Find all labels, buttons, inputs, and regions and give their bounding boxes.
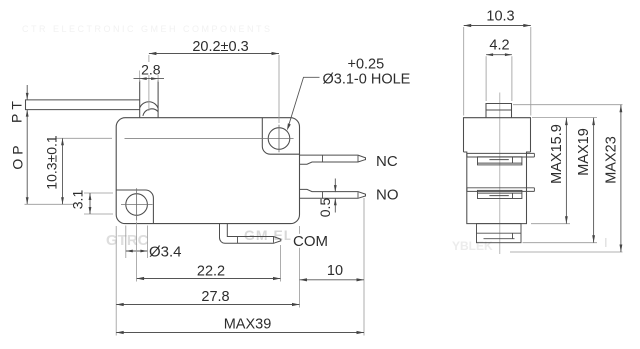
dim MAX19 arrows: [592, 118, 595, 126]
hole H1 horizontal centerline: [125, 138, 294, 140]
dim 10 arrows: [300, 278, 308, 281]
side plunger: [486, 104, 512, 118]
terminal NC tip facet: [357, 156, 359, 162]
svg-text:22.2: 22.2: [197, 264, 225, 280]
dim 22.2 arrows: [137, 277, 145, 280]
ext line body left bottom: [115, 226, 117, 336]
dim MAX23 line: [620, 105, 622, 252]
dim 20.2 left arrow: [149, 52, 157, 55]
lever curl inner arc: [143, 109, 158, 116]
dim 2.8 arrows: [140, 77, 147, 80]
dim Ø3.4 ext left: [125, 226, 127, 259]
terminal NO crimp tick: [322, 192, 324, 199]
ext line body right bottom: [299, 226, 301, 308]
dim 10.3 ext right: [530, 27, 532, 116]
svg-text:Ø3.4: Ø3.4: [149, 244, 182, 261]
dim 10.3±0.1 line: [62, 138, 64, 204]
ext line terminal tips: [363, 198, 365, 336]
ext line hole H1 center: [278, 55, 280, 123]
terminal COM bracket and blade: [220, 224, 281, 244]
dim MAX23 arrows: [620, 105, 623, 113]
side blade row NC: [467, 153, 535, 165]
dim 20.2 right arrow: [272, 52, 280, 55]
svg-text:10.3±0.1: 10.3±0.1: [44, 135, 60, 190]
terminal NC blade: [300, 155, 366, 164]
dim 4.2 line: [486, 54, 512, 56]
svg-text:2.8: 2.8: [141, 61, 161, 77]
dim 4.2 ext right: [511, 56, 513, 101]
svg-text:CTR ELECTRONIC GMEH COMPONENTS: CTR ELECTRONIC GMEH COMPONENTS: [22, 24, 273, 34]
dim MAX39 line: [116, 332, 364, 334]
hole leader line: [288, 77, 319, 126]
dim 2.8 ext right: [157, 71, 159, 83]
body outline: [116, 118, 299, 224]
svg-text:20.2±0.3: 20.2±0.3: [192, 39, 248, 55]
hole H1 vertical centerline: [278, 125, 280, 153]
dim 0.5 arrow upper: [334, 185, 337, 192]
dim 3.1 ref bottom: [84, 213, 113, 215]
ext line hole H2 center to 22.2: [136, 222, 138, 282]
dim MAX15.9 line: [565, 118, 567, 224]
ref line hole centers height: [25, 203, 74, 205]
svg-text:MAX39: MAX39: [224, 317, 272, 333]
side blade row NO: [467, 188, 535, 199]
dim 3.1 line: [89, 193, 91, 214]
ref max23 bottom: [510, 251, 623, 253]
dim 10.3±0.1 ref top: [57, 137, 113, 139]
hole leader arrowhead: [287, 123, 291, 130]
svg-text:4.2: 4.2: [489, 38, 509, 54]
svg-text:MAX23: MAX23: [604, 136, 620, 184]
svg-text:GTRC: GTRC: [106, 232, 149, 249]
ext line COM tip: [280, 245, 282, 282]
dim PT/OP shared line: [26, 110, 28, 205]
dim Ø3.4 line: [126, 250, 148, 252]
dim MAX39 arrows: [116, 331, 124, 334]
hole H1 (top-right) circle: [268, 128, 290, 150]
dim 0.5 line lower: [334, 198, 336, 212]
dim PT line upper: [26, 85, 28, 100]
svg-text:I: I: [604, 235, 608, 250]
svg-text:MAX15.9: MAX15.9: [549, 124, 565, 184]
svg-text:10.3: 10.3: [486, 9, 514, 25]
dim 4.2 ext left: [485, 56, 487, 101]
svg-text:+0.25: +0.25: [348, 57, 385, 73]
terminal NC crimp tick: [322, 155, 324, 162]
lever arm: [26, 100, 140, 110]
dim 10 line: [300, 279, 365, 281]
svg-text:NC: NC: [376, 153, 398, 170]
ref body bottom right: [531, 223, 570, 225]
svg-text:COM: COM: [293, 233, 328, 250]
svg-text:0.5: 0.5: [317, 198, 333, 218]
dim 2.8 ext left: [139, 71, 141, 83]
svg-text:OP: OP: [10, 141, 26, 169]
dim 10.3 line: [464, 25, 531, 27]
terminal NO blade: [300, 189, 366, 198]
svg-text:27.8: 27.8: [201, 289, 229, 305]
side bottom COM block: [477, 224, 522, 243]
hole H2 vertical centerline: [136, 188, 138, 220]
dim 22.2 line: [137, 278, 281, 280]
dim 4.2 arrows: [486, 53, 493, 56]
bottom-left mounting boss: [116, 190, 153, 223]
dim Ø3.4 arrows: [126, 250, 133, 253]
svg-text:NO: NO: [376, 186, 399, 203]
svg-text:PT: PT: [9, 97, 25, 123]
dim 20.2±0.3 line: [149, 53, 279, 55]
dim 10.3 arrows: [464, 24, 472, 27]
dim 0.5 line upper: [334, 179, 336, 193]
side centerline: [499, 93, 501, 255]
dim 10.3 ext left: [463, 27, 465, 116]
hole H2 horizontal centerline: [121, 204, 153, 206]
terminal NO tip facet: [357, 192, 359, 198]
dim PT arrow upper: [26, 93, 29, 100]
dim PT arrow lower: [26, 110, 29, 117]
dim MAX15.9 arrows: [565, 118, 568, 126]
terminal COM crimp tick: [237, 237, 239, 244]
dim 27.8 arrows: [116, 303, 124, 306]
svg-text:MAX19: MAX19: [576, 128, 592, 176]
dim Ø3.4 ext right: [146, 226, 148, 259]
lever curl outer arc: [140, 102, 158, 108]
ext line button center: [148, 55, 150, 111]
dim 3.1 arrows: [89, 193, 92, 200]
svg-text:GM EL: GM EL: [244, 227, 293, 243]
side body outline: [464, 118, 531, 224]
dim 0.5 arrow lower: [334, 198, 337, 205]
svg-text:10: 10: [327, 263, 343, 279]
hole H2 (bottom-left) circle: [126, 194, 148, 216]
dim MAX19 line: [593, 118, 595, 243]
terminal COM tip facet: [273, 237, 275, 243]
svg-text:Ø3.1-0 HOLE: Ø3.1-0 HOLE: [323, 72, 411, 88]
svg-text:YBLEK: YBLEK: [452, 239, 493, 253]
ref plunger top right: [513, 104, 623, 106]
dim 10.3±0.1 arrows: [61, 138, 64, 145]
top-right mounting boss: [262, 118, 299, 154]
dim OP arrow: [26, 197, 29, 204]
ref blade bottom right: [523, 242, 598, 244]
label COM: [291, 233, 330, 250]
svg-text:3.1: 3.1: [70, 190, 86, 210]
plunger button: [140, 81, 158, 118]
dim 3.1 ref top: [84, 192, 113, 194]
dim 27.8 line: [116, 304, 299, 306]
dim 2.8 line: [134, 78, 165, 80]
ref body top right: [532, 117, 597, 119]
label 2.8: [140, 61, 161, 77]
